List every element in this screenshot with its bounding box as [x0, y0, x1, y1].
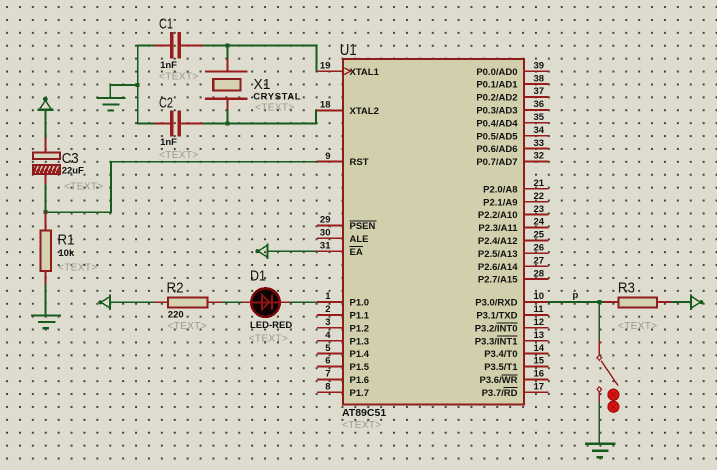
- pin name P1.1: [350, 311, 370, 322]
- pin name P0.0/AD0: [476, 67, 517, 78]
- svg-text:R1: R1: [58, 231, 75, 248]
- pin name P2.0/A8: [483, 184, 517, 195]
- svg-text:24: 24: [534, 217, 545, 228]
- pin name P2.4/A12: [478, 236, 518, 247]
- svg-text:P3.4/T0: P3.4/T0: [484, 349, 517, 360]
- pin 37 P0.2/AD2 stub: [524, 96, 549, 98]
- IC U1 AT89C51 body: [343, 59, 524, 405]
- switch SW lower contact: [597, 387, 602, 392]
- svg-text:36: 36: [534, 99, 545, 110]
- svg-text:13: 13: [534, 330, 545, 341]
- pin 10 P3.0/RXD stub: [524, 301, 549, 303]
- svg-text:26: 26: [534, 243, 545, 254]
- crystal X1: [206, 46, 247, 124]
- pin name P1.0: [350, 298, 370, 309]
- svg-text:31: 31: [320, 240, 331, 251]
- wire C2 row: [138, 123, 155, 125]
- pin 34 P0.5/AD5 stub: [524, 135, 549, 137]
- pin 4 P1.3 stub: [317, 340, 344, 342]
- svg-text:P0.2/AD2: P0.2/AD2: [476, 93, 517, 104]
- svg-text:AT89C51: AT89C51: [342, 407, 386, 419]
- svg-text:<TEXT>: <TEXT>: [255, 102, 295, 113]
- svg-text:2: 2: [325, 304, 330, 315]
- svg-text:220: 220: [168, 309, 184, 320]
- svg-text:10k: 10k: [58, 248, 75, 259]
- svg-text:35: 35: [534, 112, 545, 123]
- pin name P0.7/AD7: [476, 157, 517, 168]
- svg-text:28: 28: [534, 268, 545, 279]
- pin 3 P1.2 stub: [317, 327, 344, 329]
- power terminal +V: [39, 97, 53, 110]
- clock mark XTAL1: [344, 68, 350, 75]
- svg-text:P0.7/AD7: P0.7/AD7: [476, 157, 517, 168]
- svg-text:p: p: [573, 290, 579, 301]
- pin name P3.1/TXD: [476, 311, 517, 322]
- svg-text:C2: C2: [159, 95, 173, 112]
- pin name P3.6/WR: [479, 375, 517, 386]
- pin 6 P1.5 stub: [317, 366, 344, 368]
- pin 25 P2.4/A12 stub: [524, 239, 549, 241]
- pin 35 P0.4/AD4 stub: [524, 122, 549, 124]
- wire R1 to ground: [44, 285, 46, 316]
- ground under R1: [32, 316, 60, 329]
- pin name P1.3: [350, 336, 370, 347]
- svg-text:P0.5/AD5: P0.5/AD5: [476, 131, 518, 142]
- ground near C1: [97, 85, 124, 111]
- pin 32 P0.7/AD7 stub: [524, 161, 549, 163]
- svg-text:P2.4/A12: P2.4/A12: [478, 236, 518, 247]
- node junction crystal bottom: [225, 122, 229, 126]
- pin 9 RST stub: [317, 161, 344, 163]
- pin name XTAL2: [350, 106, 379, 117]
- pin name P3.3/INT1: [475, 336, 518, 347]
- pin 21 P2.0/A8 stub: [524, 188, 549, 190]
- wire vertical to pin18: [315, 110, 317, 123]
- svg-text:R2: R2: [167, 279, 184, 296]
- capacitor C3: [33, 152, 60, 185]
- svg-text:P2.2/A10: P2.2/A10: [478, 210, 518, 221]
- svg-text:9: 9: [325, 151, 330, 162]
- svg-text:RST: RST: [350, 157, 369, 168]
- svg-text:39: 39: [534, 60, 545, 71]
- pin 24 P2.3/A11 stub: [524, 227, 549, 229]
- svg-text:X1: X1: [254, 76, 271, 93]
- svg-text:11: 11: [534, 304, 545, 315]
- wire pin10 to junction: [548, 301, 605, 303]
- svg-text:29: 29: [320, 215, 331, 226]
- svg-text:5: 5: [325, 343, 331, 354]
- pin name P2.7/A15: [478, 275, 518, 286]
- resistor R2: [155, 298, 223, 308]
- pin name P2.1/A9: [483, 197, 517, 208]
- pin name P2.6/A14: [478, 262, 518, 273]
- wire C1 top row: [138, 45, 155, 47]
- svg-text:1: 1: [325, 291, 331, 302]
- svg-text:<TEXT>: <TEXT>: [342, 420, 382, 431]
- pin 16 P3.6/WR stub: [524, 378, 549, 380]
- svg-text:38: 38: [534, 73, 545, 84]
- pin 13 P3.3/INT1 stub: [524, 340, 549, 342]
- pin 14 P3.4/T0 stub: [524, 353, 549, 355]
- svg-text:10: 10: [534, 291, 545, 302]
- svg-text:P1.7: P1.7: [350, 388, 370, 399]
- wire junction right: [45, 211, 111, 213]
- pin name P0.3/AD3: [476, 106, 517, 117]
- svg-text:P2.6/A14: P2.6/A14: [478, 262, 518, 273]
- capacitor C2: [155, 110, 202, 136]
- pin name P2.3/A11: [478, 223, 518, 234]
- svg-text:P3.0/RXD: P3.0/RXD: [475, 298, 517, 309]
- svg-text:CRYSTAL: CRYSTAL: [253, 92, 301, 103]
- svg-text:U1: U1: [340, 42, 357, 59]
- svg-text:P3.5/T1: P3.5/T1: [484, 362, 518, 373]
- pin 12 P3.2/INT0 stub: [524, 327, 549, 329]
- wire arrow to R2: [110, 301, 154, 303]
- svg-text:P2.1/A9: P2.1/A9: [483, 197, 517, 208]
- output terminal arrow: [691, 296, 703, 309]
- svg-text:32: 32: [534, 151, 545, 162]
- pin 30 ALE stub: [317, 237, 344, 239]
- svg-text:XTAL1: XTAL1: [350, 67, 380, 78]
- svg-text:P0.3/AD3: P0.3/AD3: [476, 106, 517, 117]
- wire EA arrow to chip: [267, 250, 317, 252]
- svg-text:D1: D1: [250, 267, 266, 284]
- LED D1: [251, 288, 279, 316]
- svg-text:P2.5/A13: P2.5/A13: [478, 249, 518, 260]
- wire junction down to switch: [598, 302, 600, 340]
- svg-text:25: 25: [534, 230, 545, 241]
- pin name P3.4/T0: [484, 349, 517, 360]
- pin name P1.4: [350, 349, 370, 360]
- pin 18 XTAL2 stub: [317, 109, 344, 111]
- wire left vertical C1-C2: [137, 46, 139, 124]
- resistor R3: [605, 297, 672, 307]
- wire RST row to chip: [111, 161, 317, 163]
- pin name P3.2/INT0: [475, 323, 518, 334]
- svg-text:P3.6/WR: P3.6/WR: [479, 375, 517, 386]
- pin name P0.1/AD1: [476, 80, 518, 91]
- svg-text:21: 21: [534, 178, 545, 189]
- svg-text:27: 27: [534, 255, 545, 266]
- pin 28 P2.7/A15 stub: [524, 278, 549, 280]
- node junction C3/R1/RST: [43, 210, 47, 214]
- pin name XTAL1: [350, 67, 380, 78]
- svg-text:EA: EA: [350, 247, 363, 258]
- svg-text:7: 7: [325, 369, 330, 380]
- pin name P0.6/AD6: [476, 144, 517, 155]
- pin 15 P3.5/T1 stub: [524, 366, 549, 368]
- node junction P3.0/switch: [597, 300, 601, 304]
- ground under switch: [586, 444, 615, 458]
- wire vertical to pin19: [315, 46, 317, 72]
- svg-text:P1.1: P1.1: [350, 311, 370, 322]
- svg-text:23: 23: [534, 204, 545, 215]
- pin name P0.5/AD5: [476, 131, 518, 142]
- pin 19 XTAL1 stub: [317, 70, 344, 72]
- svg-text:30: 30: [320, 228, 331, 239]
- pin name RST: [350, 157, 369, 168]
- svg-text:P1.0: P1.0: [350, 298, 370, 309]
- pin name P0.2/AD2: [476, 93, 517, 104]
- svg-text:ALE: ALE: [350, 234, 369, 245]
- svg-text:PSEN: PSEN: [350, 221, 376, 232]
- svg-text:<TEXT>: <TEXT>: [64, 182, 104, 193]
- wire up to RST row: [110, 162, 112, 213]
- svg-text:P2.7/A15: P2.7/A15: [478, 275, 518, 286]
- switch actuator button lower: [608, 401, 619, 412]
- svg-text:P1.6: P1.6: [350, 375, 370, 386]
- svg-text:18: 18: [320, 100, 331, 111]
- pin name P3.7/RD: [482, 388, 518, 399]
- svg-text:1nF: 1nF: [160, 60, 177, 71]
- pin 23 P2.2/A10 stub: [524, 214, 549, 216]
- svg-text:4: 4: [325, 330, 331, 341]
- svg-text:P1.5: P1.5: [350, 362, 370, 373]
- svg-text:P3.3/INT1: P3.3/INT1: [475, 336, 518, 347]
- svg-text:<TEXT>: <TEXT>: [167, 321, 207, 332]
- svg-text:P3.7/RD: P3.7/RD: [482, 388, 518, 399]
- svg-text:C1: C1: [159, 16, 173, 33]
- pin 5 P1.4 stub: [317, 353, 344, 355]
- pin 39 P0.0/AD0 stub: [524, 70, 549, 72]
- pin 7 P1.6 stub: [317, 378, 344, 380]
- pin 29 PSEN stub: [317, 224, 344, 226]
- pin name P3.5/T1: [484, 362, 518, 373]
- svg-text:XTAL2: XTAL2: [350, 106, 379, 117]
- wire R3 to terminal: [672, 301, 691, 303]
- switch SW upper contact: [597, 355, 602, 360]
- svg-text:P0.0/AD0: P0.0/AD0: [476, 67, 517, 78]
- pin name P1.6: [350, 375, 370, 386]
- svg-text:34: 34: [534, 125, 545, 136]
- svg-text:22uF: 22uF: [62, 165, 84, 176]
- svg-text:P1.4: P1.4: [350, 349, 370, 360]
- svg-text:22: 22: [534, 191, 545, 202]
- pin name EA: [350, 247, 363, 258]
- input terminal arrow (P1.0 net): [98, 296, 110, 309]
- wire R2 to D1: [222, 301, 243, 303]
- pin name PSEN: [350, 221, 377, 232]
- svg-text:P2.0/A8: P2.0/A8: [483, 184, 517, 195]
- svg-text:P0.4/AD4: P0.4/AD4: [476, 118, 518, 129]
- svg-text:P0.6/AD6: P0.6/AD6: [476, 144, 517, 155]
- svg-text:15: 15: [534, 356, 545, 367]
- pin name P2.5/A13: [478, 249, 518, 260]
- pin name P3.0/RXD: [475, 298, 517, 309]
- svg-text:<TEXT>: <TEXT>: [618, 321, 658, 332]
- pin 2 P1.1 stub: [317, 314, 344, 316]
- wire C3 to junction: [44, 185, 46, 212]
- wire D1 to pin1: [280, 301, 291, 303]
- svg-text:<TEXT>: <TEXT>: [159, 150, 199, 161]
- node tee ground: [136, 83, 140, 87]
- svg-text:P0.1/AD1: P0.1/AD1: [476, 80, 518, 91]
- svg-text:3: 3: [325, 317, 330, 328]
- pin 11 P3.1/TXD stub: [524, 314, 549, 316]
- svg-text:P1.2: P1.2: [350, 323, 370, 334]
- svg-text:P3.1/TXD: P3.1/TXD: [476, 311, 517, 322]
- svg-text:33: 33: [534, 138, 545, 149]
- svg-text:12: 12: [534, 317, 545, 328]
- pin name ALE: [350, 234, 369, 245]
- input terminal arrow (EA net): [255, 245, 267, 258]
- pin 33 P0.6/AD6 stub: [524, 148, 549, 150]
- resistor R1: [40, 212, 50, 285]
- wire power to C3: [44, 110, 46, 139]
- svg-text:<TEXT>: <TEXT>: [249, 333, 289, 344]
- svg-text:P1.3: P1.3: [350, 336, 370, 347]
- switch blade: [602, 361, 618, 385]
- svg-text:14: 14: [534, 343, 545, 354]
- wire to ground g1: [110, 84, 137, 86]
- svg-text:LED-RED: LED-RED: [250, 320, 292, 331]
- pin 26 P2.5/A13 stub: [524, 252, 549, 254]
- svg-text:19: 19: [320, 60, 331, 71]
- svg-text:8: 8: [325, 382, 330, 393]
- switch actuator button upper: [608, 389, 619, 400]
- pin name P0.4/AD4: [476, 118, 518, 129]
- svg-text:P2.3/A11: P2.3/A11: [478, 223, 518, 234]
- pin name P1.5: [350, 362, 370, 373]
- svg-text:1nF: 1nF: [160, 137, 177, 148]
- svg-text:37: 37: [534, 86, 545, 97]
- wire switch to ground: [598, 392, 600, 402]
- pin name P1.7: [350, 388, 370, 399]
- svg-text:17: 17: [534, 382, 545, 393]
- pin 22 P2.1/A9 stub: [524, 201, 549, 203]
- pin 31 EA stub: [317, 250, 344, 252]
- pin name P1.2: [350, 323, 370, 334]
- svg-text:<TEXT>: <TEXT>: [58, 262, 98, 273]
- node junction crystal top: [225, 44, 229, 48]
- svg-text:16: 16: [534, 369, 545, 380]
- svg-text:6: 6: [325, 356, 330, 367]
- svg-text:R3: R3: [618, 279, 635, 296]
- pin 27 P2.6/A14 stub: [524, 265, 549, 267]
- pin 17 P3.7/RD stub: [524, 391, 549, 393]
- pin 1 P1.0 stub: [317, 301, 344, 303]
- svg-text:<TEXT>: <TEXT>: [159, 71, 199, 82]
- pin 38 P0.1/AD1 stub: [524, 83, 549, 85]
- pin name P2.2/A10: [478, 210, 518, 221]
- pin 36 P0.3/AD3 stub: [524, 109, 549, 111]
- pin 8 P1.7 stub: [317, 391, 344, 393]
- svg-text:P3.2/INT0: P3.2/INT0: [475, 323, 518, 334]
- capacitor C1: [155, 32, 202, 58]
